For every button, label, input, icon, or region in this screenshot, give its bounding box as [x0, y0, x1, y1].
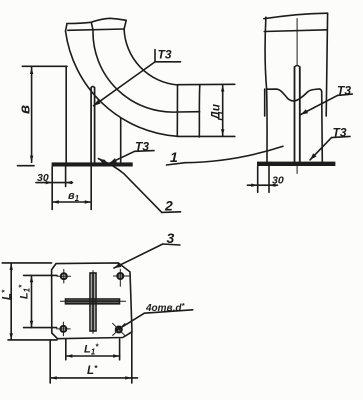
svg-text:Т3: Т3 [337, 84, 351, 98]
svg-text:L*: L* [87, 363, 98, 377]
svg-text:30: 30 [272, 175, 284, 187]
svg-text:3: 3 [167, 230, 175, 246]
svg-text:в1: в1 [68, 190, 80, 203]
svg-text:2: 2 [164, 198, 173, 214]
svg-text:L1*: L1* [18, 284, 32, 299]
svg-text:Т3: Т3 [135, 140, 149, 154]
svg-text:Ди: Ди [211, 104, 223, 120]
svg-text:в: в [17, 105, 34, 114]
svg-text:30: 30 [37, 172, 49, 184]
svg-text:Т3: Т3 [333, 126, 347, 140]
svg-text:Т3: Т3 [158, 48, 172, 62]
svg-text:4отв.d*: 4отв.d* [145, 301, 186, 314]
svg-text:1: 1 [170, 149, 178, 165]
svg-text:L1*: L1* [84, 343, 99, 357]
